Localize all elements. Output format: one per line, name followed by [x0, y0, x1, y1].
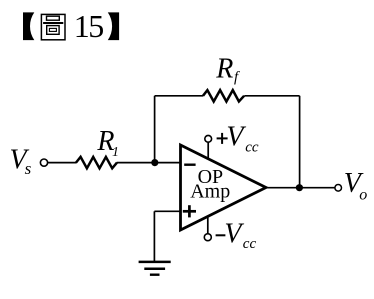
svg-text:cc: cc — [245, 140, 259, 156]
wire Vs to R1 — [48, 162, 77, 164]
svg-text:5: 5 — [88, 8, 104, 44]
ground symbol — [139, 262, 171, 275]
wire R1 to op-amp minus input — [117, 162, 181, 164]
op-amp minus input symbol — [184, 163, 195, 165]
svg-text:R: R — [215, 53, 233, 84]
svg-text:cc: cc — [243, 236, 257, 252]
wire feedback top left segment — [155, 95, 204, 97]
wire ground vertical — [153, 211, 155, 261]
svg-text:1: 1 — [112, 145, 119, 160]
wire plus input to ground horizontal — [154, 210, 180, 212]
label -Vcc — [216, 234, 226, 236]
wire -Vcc stub — [207, 216, 209, 234]
svg-text:Amp: Amp — [190, 181, 230, 203]
title right bracket 】 — [108, 12, 119, 40]
junction node at output — [296, 184, 303, 191]
wire feedback right vertical — [299, 96, 301, 188]
output terminal circle (Vo) — [335, 185, 342, 192]
input terminal circle (Vs) — [40, 159, 47, 166]
svg-text:V: V — [226, 122, 246, 153]
svg-text:s: s — [25, 159, 32, 178]
title character 圖 — [41, 14, 65, 39]
wire +Vcc stub — [207, 142, 209, 159]
op-amp U1 triangle — [181, 145, 267, 230]
resistor Rf — [203, 90, 244, 101]
title left bracket 【 — [23, 12, 34, 40]
label +Vcc — [217, 133, 228, 144]
resistor R1 — [76, 157, 117, 168]
wire feedback left vertical — [154, 96, 156, 163]
op-amp plus input symbol — [183, 205, 196, 217]
+Vcc terminal circle — [205, 135, 212, 142]
wire op-amp output — [266, 187, 335, 189]
wire Rf to right vertical — [244, 95, 299, 97]
svg-text:o: o — [359, 187, 367, 204]
-Vcc terminal circle — [204, 234, 211, 241]
svg-text:V: V — [224, 219, 244, 250]
junction node at inverting input — [151, 159, 158, 166]
